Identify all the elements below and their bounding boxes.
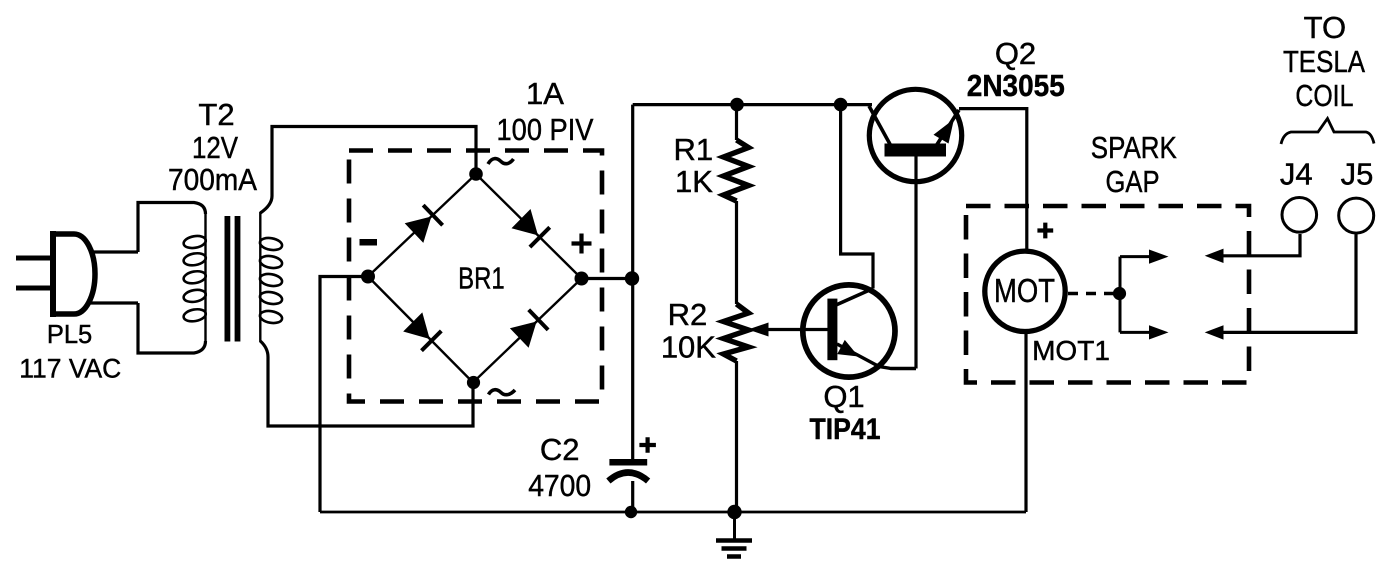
Q1 emitter line <box>837 344 916 369</box>
transistor Q2 circle <box>869 89 961 181</box>
wire J4 to gap <box>1221 234 1300 256</box>
svg-text:R1: R1 <box>673 132 713 167</box>
tilde bottom <box>489 390 516 395</box>
wire bridge right node to main vertical <box>582 277 633 280</box>
C2 plus <box>639 437 656 453</box>
spark gap dashed box <box>966 206 1249 383</box>
node dot rail/Q1 collector <box>834 98 848 112</box>
Q2 collector line <box>869 106 891 146</box>
node dot spark gap <box>1113 287 1126 300</box>
spark gap left electrode wires <box>1120 257 1152 333</box>
wire plug to primary (bottom lead) <box>89 301 138 304</box>
svg-text:J4: J4 <box>1280 157 1313 192</box>
svg-text:TESLA: TESLA <box>1283 44 1365 79</box>
svg-text:TIP41: TIP41 <box>810 413 881 446</box>
minus label <box>360 239 378 246</box>
R1 wire top <box>735 105 738 140</box>
svg-text:700mA: 700mA <box>168 162 257 197</box>
Q1 collector line <box>836 289 873 306</box>
wire Q1 base to wiper <box>766 328 828 331</box>
Q2 base bar <box>885 144 947 157</box>
svg-text:2N3055: 2N3055 <box>967 68 1065 103</box>
potentiometer R2 <box>724 304 749 361</box>
spark gap left-pointing arrow bottom (J5) <box>1205 325 1224 339</box>
wire bridge left node to bottom rail <box>320 277 368 513</box>
svg-text:COIL: COIL <box>1295 78 1353 113</box>
svg-text:100 PIV: 100 PIV <box>497 112 594 147</box>
transistor Q1 circle <box>803 285 895 377</box>
svg-text:TO: TO <box>1304 10 1347 45</box>
svg-text:C2: C2 <box>540 432 580 467</box>
primary winding spine <box>204 212 206 342</box>
Q2 emitter arrow <box>934 119 955 144</box>
svg-text:Q2: Q2 <box>995 36 1036 71</box>
svg-text:J5: J5 <box>1341 157 1374 192</box>
node dot rail/ground <box>727 505 741 519</box>
bridge node right <box>575 272 589 286</box>
secondary winding loops <box>259 236 283 324</box>
wire J5 to gap <box>1221 234 1356 332</box>
capacitor C2 <box>609 459 647 466</box>
tilde top <box>488 159 514 164</box>
plug PL5 <box>16 231 95 317</box>
jack J5 <box>1339 198 1374 233</box>
main left vertical (top rail corner down to C2) <box>631 105 634 460</box>
Q1 emitter arrow <box>837 340 858 357</box>
wire secondary bottom to bridge bottom <box>260 341 473 426</box>
wire secondary top to bridge top <box>260 127 476 214</box>
motor MOT1 circle <box>985 251 1065 331</box>
diode D2 (top-right) <box>512 209 539 235</box>
wire R2 to bottom rail <box>735 361 738 512</box>
diode D1 (left-top) <box>405 217 432 243</box>
ground <box>716 512 752 557</box>
svg-text:BR1: BR1 <box>458 261 505 296</box>
svg-text:Q1: Q1 <box>823 379 864 414</box>
bottom rail <box>320 511 1026 514</box>
wire Q2 emitter to motor top <box>959 109 1027 249</box>
diode D3 (left-bottom) <box>403 312 430 339</box>
Q1 base bar <box>827 299 837 361</box>
svg-text:1A: 1A <box>526 76 564 111</box>
svg-text:117 VAC: 117 VAC <box>19 354 121 384</box>
wire C2 bottom to rail <box>631 481 634 512</box>
svg-text:1K: 1K <box>675 164 713 199</box>
plus label bridge <box>572 234 592 254</box>
wire plug to primary (top lead) <box>91 250 138 253</box>
bridge dashed box <box>349 151 602 402</box>
spark gap right-pointing arrow bottom <box>1149 325 1169 339</box>
jack J4 <box>1282 198 1317 233</box>
diode D4 (bottom-right) <box>510 322 537 348</box>
wiper arrow R2 (from Q1 base) <box>748 323 769 337</box>
motor shaft dashed link <box>1068 292 1114 295</box>
svg-text:MOT1: MOT1 <box>1032 335 1110 366</box>
wire R1 to R2 <box>735 201 738 304</box>
node dot rail/R1 <box>730 98 744 112</box>
svg-text:10K: 10K <box>661 329 716 364</box>
node dot at +/vertical <box>625 271 639 285</box>
svg-text:T2: T2 <box>198 97 234 132</box>
Q2 emitter line <box>936 110 959 146</box>
svg-text:R2: R2 <box>668 297 708 332</box>
spark gap left-pointing arrow top (J4) <box>1205 249 1224 263</box>
top rail <box>633 103 872 106</box>
primary winding loops <box>183 234 207 323</box>
bridge node top <box>469 167 483 181</box>
motor plus <box>1037 223 1053 239</box>
transformer T2 primary outline <box>138 203 206 253</box>
spark gap right-pointing arrow top <box>1149 250 1169 264</box>
wire motor bottom to rail <box>1024 334 1027 512</box>
Q1 collector wire to top rail <box>841 105 873 289</box>
bridge node bottom <box>467 376 480 389</box>
bridge diamond edges <box>368 174 582 383</box>
transformer core <box>224 216 230 342</box>
bridge node left <box>361 270 375 284</box>
resistor R1 <box>724 140 749 201</box>
svg-text:GAP: GAP <box>1106 164 1160 199</box>
svg-text:12V: 12V <box>192 130 238 165</box>
svg-text:MOT: MOT <box>994 272 1055 309</box>
brace to tesla coil <box>1281 119 1374 145</box>
svg-text:4700: 4700 <box>528 468 591 503</box>
node dot vertical/bottom rail <box>625 506 637 518</box>
wire Q1 emitter to Q2 base <box>914 156 917 369</box>
svg-text:PL5: PL5 <box>47 321 92 349</box>
secondary winding spine <box>259 212 261 342</box>
svg-text:SPARK: SPARK <box>1091 130 1177 165</box>
